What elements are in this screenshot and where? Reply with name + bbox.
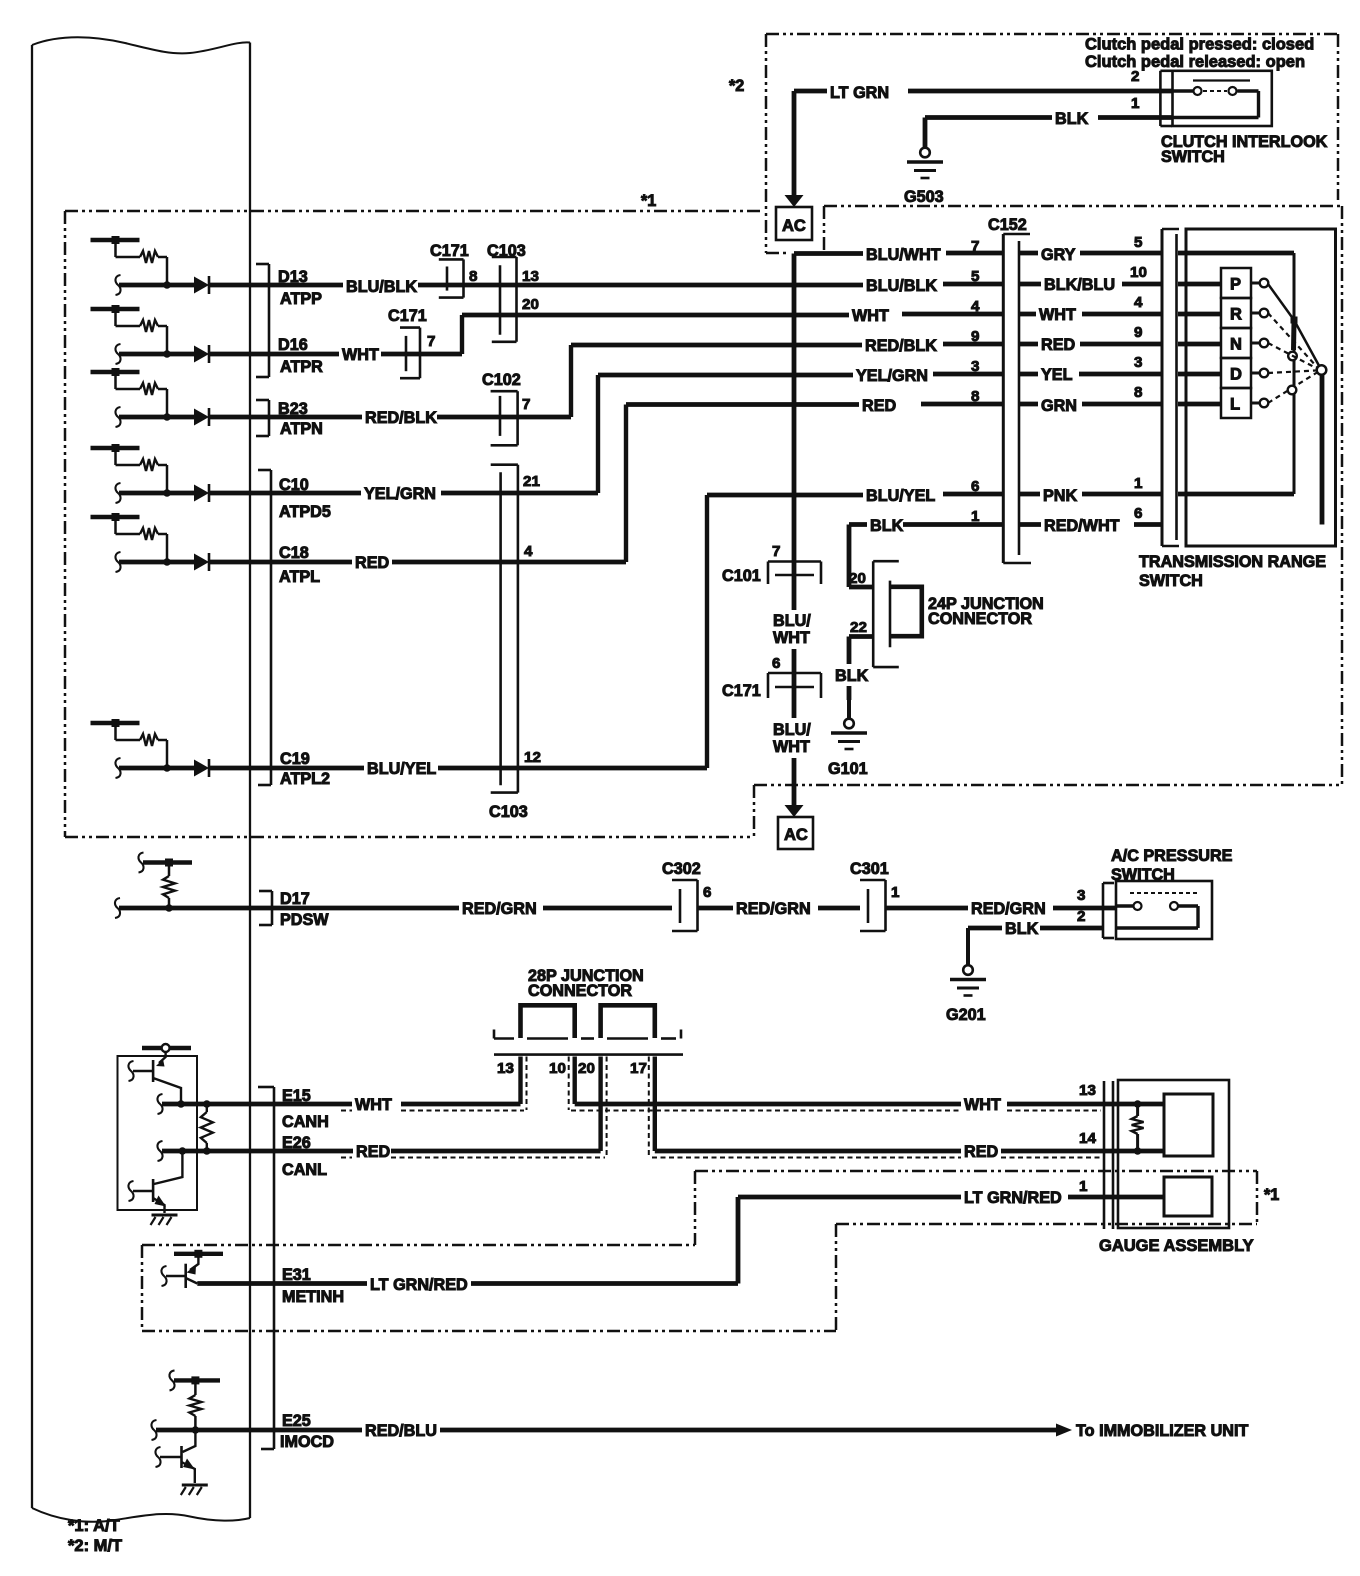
- svg-text:LT GRN: LT GRN: [830, 84, 889, 102]
- svg-text:BLU/: BLU/: [773, 612, 811, 630]
- connector C152: [1003, 234, 1031, 563]
- svg-text:PDSW: PDSW: [280, 911, 329, 929]
- svg-text:LT GRN/RED: LT GRN/RED: [370, 1276, 468, 1294]
- svg-text:1: 1: [891, 884, 900, 901]
- wire BLU/WHT vertical from AC node through C101 and C171 to AC node: [773, 254, 811, 818]
- svg-text:7: 7: [427, 333, 435, 350]
- svg-text:C302: C302: [662, 860, 701, 878]
- wire RED/BLK from B23 through C102 jog up to C152: [252, 337, 1003, 427]
- wire RED/WHT: [1019, 517, 1162, 535]
- wire BLU/WHT to C152 pin 7: [794, 246, 1003, 264]
- svg-text:BLU/BLK: BLU/BLK: [346, 278, 417, 296]
- svg-text:ATPL: ATPL: [279, 568, 320, 586]
- svg-text:WHT: WHT: [342, 346, 379, 364]
- connector C101 pin 7: [768, 562, 821, 585]
- wire GRY from C152 to transmission range switch: [1019, 246, 1162, 264]
- selector arm dashed alternates R N D L: [1268, 313, 1317, 403]
- svg-text:A/C PRESSURE: A/C PRESSURE: [1111, 847, 1233, 865]
- svg-text:BLU/BLK: BLU/BLK: [866, 277, 937, 295]
- twisted pair dashed along RED: [341, 1157, 1101, 1159]
- svg-text:3: 3: [1077, 887, 1085, 904]
- svg-text:RED/BLK: RED/BLK: [365, 409, 437, 427]
- svg-text:*1: *1: [641, 192, 656, 210]
- svg-text:BLK/BLU: BLK/BLU: [1044, 276, 1115, 294]
- connector C302 pin 6: [672, 880, 698, 931]
- wire BLU/YEL from C19 through C103 pin 12 jog up to C152: [252, 487, 1003, 778]
- svg-text:To IMMOBILIZER UNIT: To IMMOBILIZER UNIT: [1076, 1422, 1248, 1440]
- svg-text:1: 1: [1134, 475, 1143, 492]
- svg-text:RED: RED: [356, 1143, 390, 1161]
- svg-text:WHT: WHT: [852, 307, 889, 325]
- svg-text:ATPN: ATPN: [280, 420, 323, 438]
- wire RED/BLU from E25 to immobilizer unit: [252, 1422, 1072, 1440]
- svg-text:12: 12: [524, 749, 541, 766]
- 28P pin 20 riser: [598, 1057, 602, 1152]
- ECU cell C18/ATPL: pull-up resistor and diode: [91, 513, 253, 572]
- svg-text:20: 20: [849, 570, 866, 587]
- svg-text:BLK: BLK: [870, 517, 904, 535]
- svg-text:13: 13: [522, 268, 539, 285]
- svg-text:WHT: WHT: [355, 1096, 392, 1114]
- selector arm solid (P position): [1268, 284, 1320, 368]
- svg-text:RED/BLU: RED/BLU: [365, 1422, 437, 1440]
- svg-text:D16: D16: [278, 336, 308, 354]
- wire BLK from clutch switch pin 1 to ground G503: [925, 110, 1172, 148]
- svg-text:9: 9: [971, 328, 979, 345]
- connector C171 pin 8: [439, 259, 464, 297]
- wire RED: [1019, 336, 1162, 354]
- svg-text:GRN: GRN: [1041, 397, 1077, 415]
- 24P junction connector: [873, 561, 922, 667]
- wire RED CANL from E26 to gauge assembly: [252, 1143, 1164, 1161]
- svg-text:22: 22: [850, 619, 867, 636]
- svg-text:7: 7: [522, 396, 530, 413]
- svg-text:RED: RED: [1041, 336, 1075, 354]
- svg-text:*2: M/T: *2: M/T: [68, 1537, 122, 1555]
- svg-text:14: 14: [1079, 1130, 1096, 1147]
- svg-text:WHT: WHT: [773, 629, 810, 647]
- svg-text:10: 10: [1130, 264, 1147, 281]
- svg-text:WHT: WHT: [1039, 306, 1076, 324]
- svg-text:ATPP: ATPP: [280, 290, 322, 308]
- connector C103 pins 13 20: [492, 257, 517, 342]
- svg-text:CONNECTOR: CONNECTOR: [528, 982, 632, 1000]
- connector at transmission range switch: [1162, 229, 1179, 546]
- gauge internal resistor: [1132, 1100, 1144, 1155]
- svg-text:BLU/: BLU/: [773, 721, 811, 739]
- wire BLK/BLU: [1019, 276, 1162, 294]
- svg-text:E25: E25: [282, 1412, 311, 1430]
- arrow down to AC node: [785, 91, 804, 207]
- ECU cell E25/IMOCD: resistor and transistor Q4: [151, 1370, 252, 1495]
- AC box (A/T): [778, 817, 813, 849]
- connector bracket pins C10 C18 C19: [258, 470, 271, 785]
- dash-dot border box *1 (A/T region): [65, 206, 1342, 837]
- wire BLK from C152 pin 1 to 24P junction connector pin 20: [849, 517, 1003, 587]
- ground G101: [831, 698, 867, 749]
- svg-text:BLU/WHT: BLU/WHT: [866, 246, 941, 264]
- svg-text:13: 13: [1079, 1082, 1096, 1099]
- svg-text:8: 8: [469, 268, 477, 285]
- svg-text:YEL/GRN: YEL/GRN: [364, 485, 436, 503]
- svg-text:R: R: [1230, 306, 1242, 324]
- svg-text:20: 20: [522, 296, 539, 313]
- ground G503: [907, 145, 943, 178]
- wire PNK: [1019, 487, 1162, 505]
- svg-text:SWITCH: SWITCH: [1161, 148, 1225, 166]
- svg-text:1: 1: [971, 508, 980, 525]
- svg-text:G101: G101: [828, 760, 868, 778]
- svg-text:*2: *2: [729, 77, 744, 95]
- svg-text:7: 7: [772, 543, 780, 560]
- ECU cell D17/PDSW: pull-up resistor: [115, 853, 252, 919]
- svg-text:6: 6: [703, 884, 711, 901]
- svg-text:C171: C171: [722, 682, 761, 700]
- position contacts: [1251, 279, 1268, 408]
- svg-text:4: 4: [971, 298, 980, 315]
- svg-text:BLU/YEL: BLU/YEL: [367, 760, 436, 778]
- gauge assembly box: [1118, 1080, 1229, 1228]
- svg-text:C152: C152: [988, 216, 1027, 234]
- wire BLK from A/C switch pin 2 to ground G201: [968, 920, 1103, 938]
- dash-dot border box *2 (M/T region): [766, 34, 1338, 253]
- svg-text:C103: C103: [487, 242, 526, 260]
- gauge unit box upper: [1164, 1094, 1213, 1156]
- svg-text:8: 8: [1134, 384, 1142, 401]
- connector bracket at A/C pressure switch: [1103, 883, 1114, 938]
- svg-text:TRANSMISSION RANGE: TRANSMISSION RANGE: [1139, 553, 1326, 571]
- svg-text:RED/GRN: RED/GRN: [971, 900, 1046, 918]
- clutch interlock switch: [1173, 71, 1272, 126]
- wire YEL: [1019, 366, 1162, 384]
- wire BLK from 24P junction pin 22 to ground G101: [835, 637, 873, 701]
- svg-text:C103: C103: [489, 803, 528, 821]
- ECU cell D16/ATPR: pull-up resistor and diode: [91, 305, 253, 364]
- svg-text:C171: C171: [430, 242, 469, 260]
- svg-text:AC: AC: [782, 217, 806, 235]
- connector bracket pins D13 D16: [256, 264, 269, 377]
- svg-text:4: 4: [1134, 294, 1143, 311]
- svg-text:2: 2: [1077, 908, 1085, 925]
- wire RED/WHT riser inside switch: [1320, 374, 1325, 525]
- svg-text:ATPL2: ATPL2: [280, 770, 330, 788]
- svg-text:RED: RED: [862, 397, 896, 415]
- svg-text:*1: A/T: *1: A/T: [68, 1517, 120, 1535]
- ECU module scroll outline: [32, 37, 250, 1522]
- svg-text:WHT: WHT: [964, 1096, 1001, 1114]
- wire LT GRN/RED from E31 up to gauge assembly pin 1: [252, 1189, 1164, 1294]
- gauge unit box lower: [1164, 1177, 1212, 1216]
- connector bracket pins E15 E26 E31 E25: [258, 1087, 274, 1449]
- svg-text:3: 3: [971, 358, 979, 375]
- ground G201: [950, 928, 986, 996]
- svg-text:SWITCH: SWITCH: [1111, 866, 1175, 884]
- svg-text:C102: C102: [482, 371, 521, 389]
- svg-text:9: 9: [1134, 324, 1142, 341]
- svg-text:6: 6: [971, 478, 979, 495]
- svg-text:L: L: [1230, 396, 1240, 414]
- svg-text:IMOCD: IMOCD: [280, 1433, 334, 1451]
- connector at gauge assembly: [1104, 1081, 1113, 1229]
- svg-text:YEL/GRN: YEL/GRN: [856, 367, 928, 385]
- svg-text:RED/WHT: RED/WHT: [1044, 517, 1120, 535]
- svg-text:GAUGE ASSEMBLY: GAUGE ASSEMBLY: [1099, 1237, 1254, 1255]
- svg-text:ATPD5: ATPD5: [279, 503, 331, 521]
- svg-text:1: 1: [1131, 95, 1140, 112]
- wire RED/GRN from D17 through C302 and C301 to A/C pressure switch: [252, 900, 1116, 918]
- svg-text:GRY: GRY: [1041, 246, 1076, 264]
- transmission range switch box: [1186, 229, 1336, 546]
- pivot contact: [1317, 365, 1327, 375]
- 28P pin 10 riser: [573, 1057, 577, 1105]
- connector bracket pin B23: [256, 400, 269, 436]
- wire BLU/BLK from D13 through C171 and C103 to C152: [252, 277, 1003, 296]
- svg-text:WHT: WHT: [773, 738, 810, 756]
- svg-text:D: D: [1230, 366, 1242, 384]
- svg-text:BLU/YEL: BLU/YEL: [866, 487, 935, 505]
- svg-text:ATPR: ATPR: [280, 358, 323, 376]
- svg-text:C101: C101: [722, 567, 761, 585]
- svg-text:6: 6: [1134, 505, 1142, 522]
- svg-text:C171: C171: [388, 307, 427, 325]
- svg-text:C18: C18: [279, 544, 309, 562]
- svg-text:5: 5: [971, 268, 980, 285]
- wire WHT: [1019, 306, 1162, 324]
- connector bracket pin D17: [259, 891, 272, 925]
- twisted pair dashed risers: [527, 1057, 649, 1158]
- svg-text:CANH: CANH: [282, 1113, 329, 1131]
- svg-text:D17: D17: [280, 890, 310, 908]
- svg-text:Clutch pedal pressed: closed: Clutch pedal pressed: closed: [1085, 36, 1314, 54]
- connector C102 pin 7: [491, 391, 518, 445]
- dash-dot border loop *1 lower region: [142, 1171, 1257, 1331]
- position boxes P R N D L: [1221, 268, 1251, 418]
- svg-text:RED: RED: [355, 554, 389, 572]
- svg-text:G503: G503: [904, 188, 944, 206]
- wire GRN: [1019, 397, 1162, 415]
- ECU cell C19/ATPL2: pull-up resistor and diode: [91, 719, 253, 778]
- svg-text:13: 13: [497, 1060, 514, 1077]
- connector C103 pins 21 4 12 (long): [491, 465, 518, 793]
- GRY loop wire inside switch: [1178, 253, 1294, 494]
- ECU cell E15/E26: CAN driver transistors Q1 Q2 with resistor: [118, 1044, 253, 1225]
- svg-text:BLK: BLK: [835, 667, 869, 685]
- svg-text:10: 10: [549, 1060, 566, 1077]
- wire YEL/GRN from C10 through C103 pin 21 jog up to C152: [252, 367, 1003, 503]
- A/C pressure switch: [1116, 881, 1212, 939]
- 28P pin 17 riser: [653, 1057, 657, 1152]
- connector C171 pin 7: [400, 328, 420, 379]
- svg-text:N: N: [1230, 336, 1242, 354]
- ECU cell C10/ATPD5: pull-up resistor and diode: [91, 444, 253, 503]
- wire LT GRN from AC node to clutch interlock switch pin 2: [794, 84, 1172, 102]
- svg-text:RED/BLK: RED/BLK: [865, 337, 937, 355]
- ECU cell B23/ATPN: pull-up resistor and diode: [91, 368, 253, 427]
- svg-text:RED/GRN: RED/GRN: [462, 900, 537, 918]
- svg-text:*1: *1: [1264, 1186, 1279, 1204]
- svg-text:SWITCH: SWITCH: [1139, 572, 1203, 590]
- ECU cell D13/ATPP: pull-up resistor and diode: [91, 236, 253, 295]
- wire WHT from D16 through C171 jog up to C103 pin 20: [252, 307, 1003, 364]
- svg-text:BLK: BLK: [1005, 920, 1039, 938]
- connector bracket at clutch switch: [1160, 71, 1172, 126]
- svg-text:METINH: METINH: [282, 1288, 344, 1306]
- svg-text:LT GRN/RED: LT GRN/RED: [964, 1189, 1062, 1207]
- svg-text:AC: AC: [784, 826, 808, 844]
- svg-text:8: 8: [971, 388, 979, 405]
- connector C301 pin 1: [860, 880, 886, 931]
- svg-text:21: 21: [523, 473, 540, 490]
- svg-text:YEL: YEL: [1041, 366, 1073, 384]
- ECU cell E31/METINH: transistor Q3: [161, 1250, 252, 1288]
- svg-text:6: 6: [772, 655, 780, 672]
- svg-text:RED/GRN: RED/GRN: [736, 900, 811, 918]
- svg-text:C301: C301: [850, 860, 889, 878]
- wires to position contacts: [1178, 284, 1221, 404]
- connector C171 pin 6: [768, 673, 821, 698]
- 28P pin 13 riser: [518, 1057, 522, 1105]
- svg-text:Clutch pedal released: open: Clutch pedal released: open: [1085, 53, 1305, 71]
- wire WHT CANH from E15 to gauge assembly: [252, 1096, 1164, 1114]
- svg-text:BLK: BLK: [1055, 110, 1089, 128]
- svg-text:G201: G201: [946, 1006, 986, 1024]
- svg-text:1: 1: [1079, 1178, 1088, 1195]
- svg-text:20: 20: [578, 1060, 595, 1077]
- svg-text:7: 7: [971, 238, 979, 255]
- svg-text:17: 17: [630, 1060, 647, 1077]
- svg-text:C19: C19: [280, 750, 310, 768]
- svg-text:3: 3: [1134, 354, 1142, 371]
- svg-text:CONNECTOR: CONNECTOR: [928, 610, 1032, 628]
- svg-text:5: 5: [1134, 234, 1143, 251]
- svg-text:4: 4: [524, 543, 533, 560]
- svg-text:P: P: [1230, 276, 1241, 294]
- 28P junction connector: [494, 1005, 683, 1054]
- svg-text:PNK: PNK: [1043, 487, 1077, 505]
- wire RED from C18 through C103 pin 4 jog up to C152: [252, 397, 1003, 572]
- svg-text:CANL: CANL: [282, 1161, 327, 1179]
- AC box (M/T): [776, 207, 812, 240]
- svg-text:RED: RED: [964, 1143, 998, 1161]
- twisted pair dashed along WHT: [341, 1110, 1101, 1112]
